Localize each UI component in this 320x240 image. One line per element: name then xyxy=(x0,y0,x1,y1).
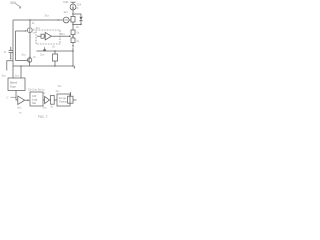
svg-text:Sel: Sel xyxy=(32,101,36,105)
wire: block 1 output down xyxy=(16,91,18,101)
left input stub (L-wire) xyxy=(7,61,13,71)
stub label left xyxy=(11,96,17,98)
svg-text:Logi: Logi xyxy=(32,98,37,102)
junction dot at x=55 xyxy=(54,50,55,51)
svg-text:3xx: 3xx xyxy=(58,84,63,88)
junction dot at end of 65-rail xyxy=(72,65,73,66)
transistor Q1 (circle style BJT) xyxy=(27,58,31,62)
svg-text:FIG. 7: FIG. 7 xyxy=(38,115,48,119)
dashed block U1 (error amplifier) xyxy=(36,30,60,44)
node B junction dot on top rail xyxy=(29,19,30,20)
svg-text:3xx: 3xx xyxy=(2,74,7,78)
wire: node B down xyxy=(29,20,31,27)
inner vertical wire xyxy=(15,31,17,61)
arrow on rail near resistor R2 xyxy=(58,19,60,21)
resistor R3 hanging between rails xyxy=(52,51,57,66)
wire: current source to node A xyxy=(72,10,74,14)
svg-text:300: 300 xyxy=(10,1,16,5)
current source I3 (circle at 30,30) xyxy=(27,28,32,33)
top horizontal rail xyxy=(13,19,63,21)
arrow hanging below node xyxy=(73,66,75,68)
block 3 output wire xyxy=(73,99,77,101)
small overlap box on block 3 xyxy=(68,92,73,103)
node A junction dot xyxy=(72,13,73,14)
left rail (vertical) xyxy=(12,20,14,78)
svg-text:3xx: 3xx xyxy=(22,53,27,57)
svg-text:3xx: 3xx xyxy=(17,106,22,110)
block 1 (bandgap reference) xyxy=(8,78,25,91)
wire: op-amp output to right chain with arrowhead xyxy=(51,35,60,37)
component box C2 on right chain xyxy=(71,38,75,43)
capacitor C1 branch xyxy=(9,47,13,60)
comparator triangle xyxy=(45,96,50,103)
current source I1 (top right) xyxy=(70,4,76,10)
svg-text:3xx: 3xx xyxy=(56,89,61,93)
block 2 (control logic) xyxy=(30,92,43,106)
wire: bottom rail joining R1 and D1 xyxy=(73,24,81,26)
block 3 (output stage, double box) xyxy=(57,94,70,106)
mid horizontal wire (y=51) xyxy=(37,50,74,52)
svg-text:Gap: Gap xyxy=(10,85,16,89)
wire: I2 to R1 column xyxy=(69,19,71,21)
transistor Q2 mark on mid wire xyxy=(43,47,47,51)
wire: buffer to block 2 with arrowhead xyxy=(25,99,29,101)
svg-text:3xx: 3xx xyxy=(61,32,66,36)
small box element after comparator xyxy=(49,95,54,104)
svg-text:3xx: 3xx xyxy=(40,53,45,57)
svg-text:For ge: For ge xyxy=(59,97,67,100)
svg-text:3xx: 3xx xyxy=(36,26,41,30)
svg-text:1xx: 1xx xyxy=(15,74,20,78)
wire: inner feedback line with arrowhead into I3 xyxy=(16,30,26,32)
wire: chain bottom with down arrow to mid rail xyxy=(72,43,74,45)
wire: I3 to transistor Q1 xyxy=(29,33,31,58)
input element inside U1 xyxy=(37,34,44,38)
buffer amplifier triangle xyxy=(18,96,25,104)
svg-text:Clk Cntr Sel xx: Clk Cntr Sel xx xyxy=(28,88,45,91)
wire: small box to block 3 xyxy=(54,99,57,101)
svg-text:Vdd: Vdd xyxy=(63,0,69,4)
component box C1 on right chain xyxy=(71,25,75,35)
resistor R1 (box on vertical line) xyxy=(71,14,75,25)
wire: block 2 to comparator xyxy=(43,99,44,101)
Vdd power rail symbol xyxy=(63,0,76,4)
svg-text:3xx: 3xx xyxy=(64,10,69,14)
op-amp triangle inside U1 xyxy=(44,32,51,40)
svg-text:Ctrl: Ctrl xyxy=(32,94,37,98)
figure reference numeral 300 with leader arrow xyxy=(10,1,22,9)
junction of output wire on chain xyxy=(72,36,73,37)
svg-text:3xx: 3xx xyxy=(45,14,50,18)
svg-text:Tuning: Tuning xyxy=(59,101,67,104)
svg-text:3xx: 3xx xyxy=(43,106,48,110)
current source I2 (circle on top rail) xyxy=(63,17,69,23)
wire: node A to diode branch xyxy=(73,14,81,17)
wire: Q1 emitter down, horizontal run to right xyxy=(29,62,31,66)
diode D1 (cathode down) xyxy=(79,17,82,25)
wire: Q1 base to left, down to block 1 xyxy=(16,59,28,61)
svg-text:C: C xyxy=(7,96,9,100)
